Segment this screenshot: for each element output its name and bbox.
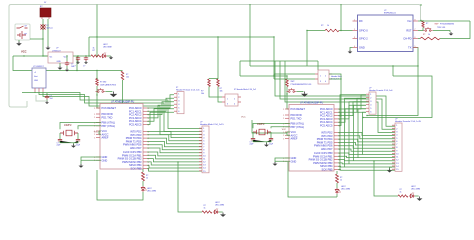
wire y61 branch bbox=[240, 61, 318, 76]
svg-text:PD1 TXD: PD1 TXD bbox=[102, 115, 113, 119]
ground regulator bbox=[59, 66, 61, 68]
svg-text:2: 2 bbox=[339, 142, 340, 144]
wire led right mcu bbox=[288, 162, 337, 197]
LED2 bbox=[142, 186, 144, 188]
wire regulator gnd bbox=[59, 63, 61, 66]
svg-text:LED 5MM: LED 5MM bbox=[103, 46, 112, 48]
sheet frame inner corner bbox=[36, 95, 46, 101]
wire regulator hook bbox=[13, 56, 97, 71]
svg-text:3: 3 bbox=[320, 81, 321, 83]
svg-text:1k: 1k bbox=[93, 48, 95, 50]
svg-text:PC5 ADC5: PC5 ADC5 bbox=[320, 124, 333, 128]
ground header P2 bbox=[389, 169, 391, 171]
resistor R3 bbox=[286, 79, 289, 87]
svg-text:2: 2 bbox=[148, 159, 149, 161]
svg-text:VCC: VCC bbox=[282, 129, 287, 131]
svg-text:PC6 RESET: PC6 RESET bbox=[291, 107, 306, 111]
ground reset right bbox=[304, 92, 306, 94]
junction vcc in bbox=[23, 55, 24, 56]
svg-text:AREF: AREF bbox=[102, 136, 109, 140]
svg-text:1: 1 bbox=[283, 138, 284, 140]
svg-text:2: 2 bbox=[148, 124, 149, 126]
svg-text:1: 1 bbox=[94, 134, 95, 136]
svg-text:AREF: AREF bbox=[291, 137, 298, 141]
wire bus left ADC to header F1 bbox=[147, 95, 174, 125]
wire overhead R3 bbox=[285, 61, 395, 133]
wire bus left MCU to header P1 bbox=[147, 132, 202, 172]
svg-text:5: 5 bbox=[415, 46, 416, 48]
svg-text:PTS645SM43SMTR92 LFS: PTS645SM43SMTR92 LFS bbox=[291, 84, 313, 86]
svg-text:PD1 TXD: PD1 TXD bbox=[291, 116, 302, 120]
junction R13 bbox=[96, 70, 97, 71]
wire switch out bbox=[30, 38, 43, 40]
resistor R5 bbox=[336, 174, 339, 183]
wire esp gnd bbox=[350, 48, 353, 51]
wire bottom mid gnd bbox=[219, 211, 223, 213]
svg-text:Vout: Vout bbox=[34, 75, 38, 78]
wire left xtal bbox=[60, 123, 101, 130]
svg-text:10k: 10k bbox=[220, 91, 223, 93]
svg-text:2: 2 bbox=[339, 109, 340, 111]
svg-text:2: 2 bbox=[339, 125, 340, 127]
svg-text:ESP8266-01: ESP8266-01 bbox=[384, 13, 397, 15]
svg-text:2: 2 bbox=[148, 152, 149, 154]
wire gpio0 drop bbox=[306, 31, 308, 67]
wire c6 bbox=[66, 56, 68, 69]
svg-text:104: 104 bbox=[50, 98, 53, 100]
svg-text:AIN1 PD7: AIN1 PD7 bbox=[130, 146, 142, 150]
battery cell B2 bbox=[17, 31, 26, 39]
ground caps bbox=[77, 61, 79, 62]
svg-text:PB7 (XTAL): PB7 (XTAL) bbox=[102, 124, 116, 128]
svg-text:LED_5MM: LED_5MM bbox=[341, 188, 350, 190]
svg-text:2: 2 bbox=[339, 169, 340, 171]
svg-text:16MHz: 16MHz bbox=[257, 123, 265, 126]
svg-text:2: 2 bbox=[339, 122, 340, 124]
svg-text:U? ATMEGA328P-PU: U? ATMEGA328P-PU bbox=[111, 100, 134, 103]
wire c3 bbox=[46, 93, 48, 101]
junction bottom right bbox=[373, 160, 374, 161]
wire led left mcu bbox=[97, 169, 143, 200]
svg-text:Header Female 2.54, 1x6: Header Female 2.54, 1x6 bbox=[176, 89, 200, 92]
svg-text:PC5 ADC5: PC5 ADC5 bbox=[129, 123, 142, 127]
capacitor C6 bbox=[65, 61, 69, 66]
wire button gnd right bbox=[297, 91, 304, 94]
header F1 1x6 bbox=[177, 92, 184, 114]
svg-text:1k: 1k bbox=[400, 191, 402, 193]
pushbutton S2 bbox=[98, 91, 100, 93]
svg-text:F? Header-Male-2.54_2x2: F? Header-Male-2.54_2x2 bbox=[234, 88, 256, 91]
svg-text:6: 6 bbox=[415, 37, 416, 39]
resistor R6 bbox=[202, 211, 212, 213]
svg-text:GND: GND bbox=[34, 80, 39, 82]
resistor R13 bbox=[121, 71, 124, 80]
resistor R1 bbox=[91, 55, 101, 57]
wire pullups to header J1 bbox=[209, 87, 222, 103]
wire mid rail y37 bbox=[89, 36, 274, 38]
svg-text:22pF: 22pF bbox=[269, 144, 273, 146]
junction c3 bbox=[46, 94, 47, 95]
wire left drop x89 bbox=[88, 37, 90, 56]
wire bottom right gnd bbox=[415, 195, 419, 197]
svg-text:R?: R? bbox=[93, 50, 95, 52]
battery B1 9V bbox=[40, 8, 51, 17]
module U5 ESP8266-01 bbox=[358, 15, 414, 52]
wire left gnd pins bbox=[81, 157, 101, 164]
svg-text:2: 2 bbox=[148, 145, 149, 147]
svg-text:2: 2 bbox=[339, 112, 340, 114]
wire overhead L2 bbox=[39, 92, 202, 132]
wire R13 net bbox=[97, 71, 123, 104]
resistor R11 10k bbox=[208, 79, 211, 87]
svg-text:LED_5MM: LED_5MM bbox=[411, 188, 420, 190]
resistor R10 bbox=[420, 37, 440, 40]
junction reset left bbox=[96, 78, 97, 79]
switch S1 bbox=[17, 26, 28, 28]
pushbutton S3 bbox=[289, 91, 291, 93]
ground bottom right bbox=[419, 197, 421, 199]
svg-text:SW?: SW? bbox=[291, 81, 295, 83]
wire right vcc pins bbox=[287, 132, 290, 135]
ESP pins bbox=[353, 20, 358, 22]
header P1 1x15 bbox=[202, 126, 209, 173]
wire bus right MCU to header P2 bbox=[338, 133, 395, 171]
svg-text:1: 1 bbox=[227, 98, 228, 100]
svg-text:1: 1 bbox=[94, 108, 95, 110]
svg-text:2: 2 bbox=[339, 163, 340, 165]
svg-text:2: 2 bbox=[148, 155, 149, 157]
svg-text:2: 2 bbox=[148, 108, 149, 110]
resistor R4 bbox=[142, 172, 145, 181]
svg-text:2: 2 bbox=[148, 168, 149, 170]
wire hook outer bbox=[363, 76, 432, 118]
svg-text:R?: R? bbox=[426, 23, 428, 25]
svg-text:1: 1 bbox=[354, 19, 355, 21]
junction battery bbox=[42, 38, 43, 39]
svg-text:22pF: 22pF bbox=[76, 145, 80, 147]
svg-text:3: 3 bbox=[354, 37, 355, 39]
svg-text:Header Male: Header Male bbox=[331, 75, 342, 78]
svg-text:2: 2 bbox=[339, 136, 340, 138]
svg-text:SCK PB5: SCK PB5 bbox=[322, 168, 334, 172]
wire gpio0 net bbox=[307, 5, 353, 31]
svg-text:CH-PD: CH-PD bbox=[403, 37, 411, 41]
svg-text:16MHz: 16MHz bbox=[64, 124, 72, 127]
junction hooks bbox=[362, 117, 363, 118]
ground left MCU bbox=[80, 164, 82, 166]
ground right MCU bbox=[274, 162, 276, 164]
svg-text:Vcc: Vcc bbox=[407, 19, 412, 23]
wire TX hook bbox=[367, 48, 418, 116]
ground c3 bbox=[46, 101, 48, 102]
svg-text:U?: U? bbox=[395, 118, 397, 120]
regulator U1 L7805CV bbox=[48, 52, 73, 63]
svg-text:1: 1 bbox=[94, 114, 95, 116]
svg-text:S?: S? bbox=[25, 26, 27, 28]
svg-text:7: 7 bbox=[415, 29, 416, 31]
svg-text:2: 2 bbox=[148, 165, 149, 167]
wire bus right ADC to header P3 bbox=[338, 95, 366, 126]
junction reg out bbox=[77, 55, 78, 56]
switch enclosure bbox=[15, 24, 30, 40]
svg-text:2: 2 bbox=[234, 98, 235, 100]
svg-text:U?: U? bbox=[200, 121, 202, 123]
svg-text:2: 2 bbox=[339, 149, 340, 151]
wire overhead L1 bbox=[35, 92, 202, 129]
module U2 sensor bbox=[32, 68, 46, 88]
svg-text:1k: 1k bbox=[428, 34, 430, 36]
wire P3 pins to bus bbox=[340, 95, 366, 171]
ground c6 bbox=[66, 69, 68, 70]
svg-text:2: 2 bbox=[339, 166, 340, 168]
svg-text:RST: RST bbox=[406, 29, 412, 33]
capacitor C1 bbox=[76, 56, 80, 61]
svg-text:F?: F? bbox=[176, 87, 178, 89]
svg-text:1: 1 bbox=[283, 115, 284, 117]
svg-text:3: 3 bbox=[227, 103, 228, 105]
svg-text:GPIO 2: GPIO 2 bbox=[359, 37, 368, 41]
wire P2 gnd bbox=[390, 167, 393, 168]
svg-text:GND: GND bbox=[102, 158, 108, 162]
wire led1 gnd bbox=[107, 55, 111, 57]
LED1 power bbox=[101, 55, 103, 57]
svg-text:2: 2 bbox=[148, 162, 149, 164]
svg-text:1k: 1k bbox=[327, 25, 329, 27]
svg-text:B?: B? bbox=[25, 34, 27, 36]
svg-text:2: 2 bbox=[148, 115, 149, 117]
resistor R7 bbox=[398, 195, 408, 197]
capacitor C2 bbox=[84, 56, 88, 61]
svg-text:SW?: SW? bbox=[435, 23, 439, 25]
wire mid rail y66 bbox=[250, 5, 418, 67]
svg-text:AIN1 PD7: AIN1 PD7 bbox=[321, 147, 333, 151]
svg-text:+5: +5 bbox=[34, 72, 36, 74]
ground battery negative bbox=[47, 46, 49, 48]
svg-text:2: 2 bbox=[148, 118, 149, 120]
header J1 2x2 bbox=[225, 94, 238, 106]
svg-text:1: 1 bbox=[94, 137, 95, 139]
LED4 bbox=[213, 211, 215, 213]
ground sw1 bbox=[450, 32, 452, 34]
svg-text:104: 104 bbox=[71, 66, 74, 68]
svg-text:PTS645SM43SM: PTS645SM43SM bbox=[440, 23, 454, 25]
svg-text:1: 1 bbox=[94, 117, 95, 119]
ground bottom mid bbox=[222, 213, 224, 215]
svg-text:GND: GND bbox=[359, 46, 365, 50]
wire drop x274 bbox=[273, 37, 275, 76]
ground reset left bbox=[113, 92, 115, 94]
svg-text:2: 2 bbox=[148, 148, 149, 150]
wire button gnd left bbox=[106, 91, 113, 94]
wire vcc rail in bbox=[13, 55, 48, 57]
resistor R2 bbox=[96, 79, 99, 86]
wire right gnd pins bbox=[275, 158, 290, 162]
wire x252 vcc drop bbox=[252, 120, 287, 133]
svg-text:2: 2 bbox=[148, 111, 149, 113]
pushbutton SW1 bbox=[425, 30, 427, 32]
resistor R9 bbox=[422, 21, 424, 28]
svg-text:TR92 LFS: TR92 LFS bbox=[437, 27, 446, 29]
LED3 bbox=[336, 188, 338, 190]
wire bottom mid bbox=[178, 162, 202, 212]
svg-text:1/4W CARBON FILM: 1/4W CARBON FILM bbox=[100, 83, 117, 86]
junction j2 bbox=[340, 78, 341, 79]
svg-text:PC6 RESET: PC6 RESET bbox=[102, 106, 117, 110]
svg-text:L7805CV: L7805CV bbox=[52, 50, 61, 52]
ground esp bbox=[349, 50, 351, 52]
svg-text:4: 4 bbox=[354, 46, 355, 48]
junction dots rails bbox=[217, 36, 218, 37]
ground led1 bbox=[110, 56, 112, 57]
svg-text:RX: RX bbox=[359, 19, 363, 23]
svg-text:2: 2 bbox=[354, 29, 355, 31]
svg-text:8: 8 bbox=[415, 19, 416, 21]
svg-text:LED_5MM: LED_5MM bbox=[147, 190, 156, 192]
wire chpd row bbox=[418, 38, 420, 40]
svg-text:2: 2 bbox=[148, 138, 149, 140]
svg-text:2: 2 bbox=[339, 119, 340, 121]
wire pullup drop x218 bbox=[209, 37, 218, 79]
svg-text:GPIO 0: GPIO 0 bbox=[359, 29, 368, 33]
svg-text:10k: 10k bbox=[126, 77, 129, 79]
svg-text:GND: GND bbox=[291, 159, 297, 163]
svg-text:1: 1 bbox=[283, 109, 284, 111]
svg-text:2: 2 bbox=[339, 160, 340, 162]
wire left vcc pins bbox=[99, 131, 101, 134]
svg-text:2: 2 bbox=[339, 153, 340, 155]
wire battery leads bbox=[43, 19, 48, 56]
wire reset net left bbox=[97, 71, 101, 109]
svg-text:Header-Male-2.54_1x15: Header-Male-2.54_1x15 bbox=[200, 123, 224, 126]
svg-text:1: 1 bbox=[283, 135, 284, 137]
svg-text:R?: R? bbox=[321, 25, 323, 27]
svg-text:4: 4 bbox=[234, 103, 235, 105]
wire bottom right bbox=[374, 161, 398, 196]
header P3 1x6 bbox=[369, 92, 376, 114]
wire esp vcc row bbox=[418, 21, 470, 39]
svg-text:2: 2 bbox=[148, 141, 149, 143]
header J2 2x2 bbox=[318, 70, 329, 84]
svg-text:PB7 (XTAL): PB7 (XTAL) bbox=[291, 125, 305, 129]
svg-text:22pF: 22pF bbox=[250, 144, 254, 146]
svg-text:U?: U? bbox=[56, 48, 58, 50]
svg-text:U?: U? bbox=[384, 10, 386, 12]
svg-text:Vin: Vin bbox=[50, 57, 53, 59]
svg-text:2: 2 bbox=[148, 135, 149, 137]
ground rail left bbox=[18, 42, 20, 44]
wire regulator out bbox=[73, 55, 91, 57]
wire module pins bbox=[22, 91, 35, 94]
svg-text:Header Female 2.54, 1x15: Header Female 2.54, 1x15 bbox=[395, 120, 422, 123]
svg-text:1: 1 bbox=[283, 118, 284, 120]
svg-text:2: 2 bbox=[339, 146, 340, 148]
resistor R8 1k bbox=[325, 29, 339, 32]
svg-text:VCC: VCC bbox=[241, 117, 246, 119]
junction reset right bbox=[286, 93, 287, 94]
svg-text:1k: 1k bbox=[340, 179, 342, 181]
svg-text:10k: 10k bbox=[201, 93, 204, 95]
svg-text:2: 2 bbox=[325, 75, 326, 77]
svg-text:2: 2 bbox=[339, 156, 340, 158]
svg-text:1k: 1k bbox=[146, 177, 148, 179]
header P2 1x15 bbox=[395, 123, 402, 171]
wire overhead L3 bbox=[43, 92, 202, 135]
svg-text:1: 1 bbox=[283, 132, 284, 134]
svg-text:1k: 1k bbox=[204, 207, 206, 209]
resistor R12 10k bbox=[217, 79, 220, 87]
junction bottom mid bbox=[177, 161, 178, 162]
wire overhead R2 bbox=[280, 61, 395, 129]
junction vcc r9 bbox=[422, 20, 423, 21]
wire right xtal bbox=[253, 124, 290, 129]
svg-text:4: 4 bbox=[325, 81, 326, 83]
MCU U4 ATMEGA328P-PU bbox=[289, 105, 334, 172]
svg-text:U? ATMEGA328P-PU: U? ATMEGA328P-PU bbox=[300, 101, 323, 104]
svg-text:2: 2 bbox=[148, 131, 149, 133]
fuse F1 bbox=[41, 25, 46, 30]
svg-text:U? LM35DT: U? LM35DT bbox=[33, 66, 45, 68]
svg-text:2: 2 bbox=[339, 132, 340, 134]
wire pack gnd stub bbox=[18, 40, 20, 42]
svg-text:Header Female 2.54, 1x6: Header Female 2.54, 1x6 bbox=[369, 89, 393, 92]
svg-text:2: 2 bbox=[339, 139, 340, 141]
svg-text:1: 1 bbox=[320, 75, 321, 77]
wire reset net right bbox=[287, 76, 290, 109]
svg-text:22pF: 22pF bbox=[57, 145, 61, 147]
junction gpio0 bbox=[340, 4, 341, 5]
svg-text:R?: R? bbox=[423, 34, 425, 36]
svg-text:SCK PB5: SCK PB5 bbox=[131, 167, 143, 171]
svg-text:2: 2 bbox=[339, 116, 340, 118]
svg-text:2: 2 bbox=[148, 121, 149, 123]
svg-text:R? 2M2: R? 2M2 bbox=[100, 82, 106, 84]
svg-text:GND: GND bbox=[57, 61, 62, 63]
wire j2 feeds bbox=[274, 74, 341, 117]
svg-text:TX: TX bbox=[408, 46, 412, 50]
svg-text:C?: C? bbox=[83, 66, 85, 68]
LED5 bbox=[409, 195, 411, 197]
pale perimeter net wire bbox=[9, 5, 421, 108]
svg-text:VCC: VCC bbox=[94, 132, 99, 134]
svg-text:VCC: VCC bbox=[21, 50, 27, 54]
MCU U3 ATMEGA328P-PU bbox=[100, 104, 143, 170]
wire overhead R1 bbox=[275, 61, 395, 126]
wire y76 branch bbox=[240, 75, 287, 77]
svg-text:LED_5MM: LED_5MM bbox=[215, 204, 224, 206]
svg-text:5A fuse: 5A fuse bbox=[47, 27, 53, 30]
wire sw1 bbox=[418, 28, 450, 33]
wire left VCC drop bbox=[96, 5, 98, 57]
capacitor C3 bbox=[45, 95, 49, 100]
